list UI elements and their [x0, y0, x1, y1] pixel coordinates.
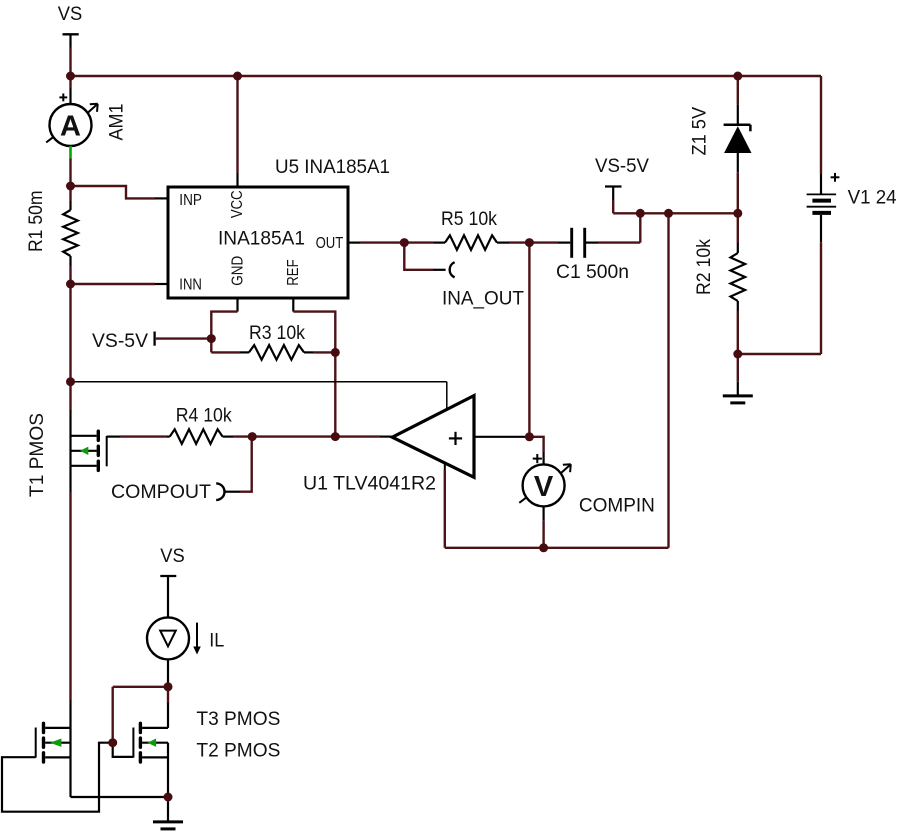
svg-text:REF: REF — [285, 259, 302, 285]
svg-text:V: V — [534, 471, 554, 503]
svg-text:Z1 5V: Z1 5V — [689, 107, 710, 156]
svg-text:IL: IL — [209, 631, 224, 652]
svg-text:U5 INA185A1: U5 INA185A1 — [275, 157, 390, 178]
svg-text:R4 10k: R4 10k — [176, 406, 232, 427]
svg-text:AM1: AM1 — [107, 104, 128, 141]
svg-text:COMPIN: COMPIN — [579, 496, 655, 517]
svg-text:T1 PMOS: T1 PMOS — [27, 413, 48, 497]
svg-text:R5 10k: R5 10k — [441, 209, 497, 230]
svg-text:U1 TLV4041R2: U1 TLV4041R2 — [303, 474, 436, 495]
svg-text:OUT: OUT — [316, 235, 344, 252]
svg-text:COMPOUT: COMPOUT — [111, 482, 211, 503]
svg-text:VCC: VCC — [229, 190, 246, 218]
svg-text:R2 10k: R2 10k — [694, 239, 715, 295]
svg-text:INA_OUT: INA_OUT — [442, 288, 524, 309]
svg-text:A: A — [60, 110, 81, 142]
svg-text:INA185A1: INA185A1 — [218, 229, 305, 250]
svg-text:VS-5V: VS-5V — [595, 156, 649, 177]
svg-text:VS: VS — [58, 4, 83, 25]
svg-text:INP: INP — [179, 192, 202, 209]
svg-text:VS-5V: VS-5V — [92, 331, 148, 352]
svg-text:T3 PMOS: T3 PMOS — [196, 709, 280, 730]
svg-text:R3 10k: R3 10k — [249, 323, 305, 344]
svg-text:R1 50m: R1 50m — [26, 191, 47, 253]
svg-text:INN: INN — [179, 277, 202, 294]
svg-text:GND: GND — [230, 256, 247, 286]
svg-text:V1 24: V1 24 — [848, 187, 897, 208]
svg-text:C1 500n: C1 500n — [556, 262, 629, 283]
svg-text:T2 PMOS: T2 PMOS — [196, 741, 280, 762]
svg-text:VS: VS — [160, 546, 185, 567]
